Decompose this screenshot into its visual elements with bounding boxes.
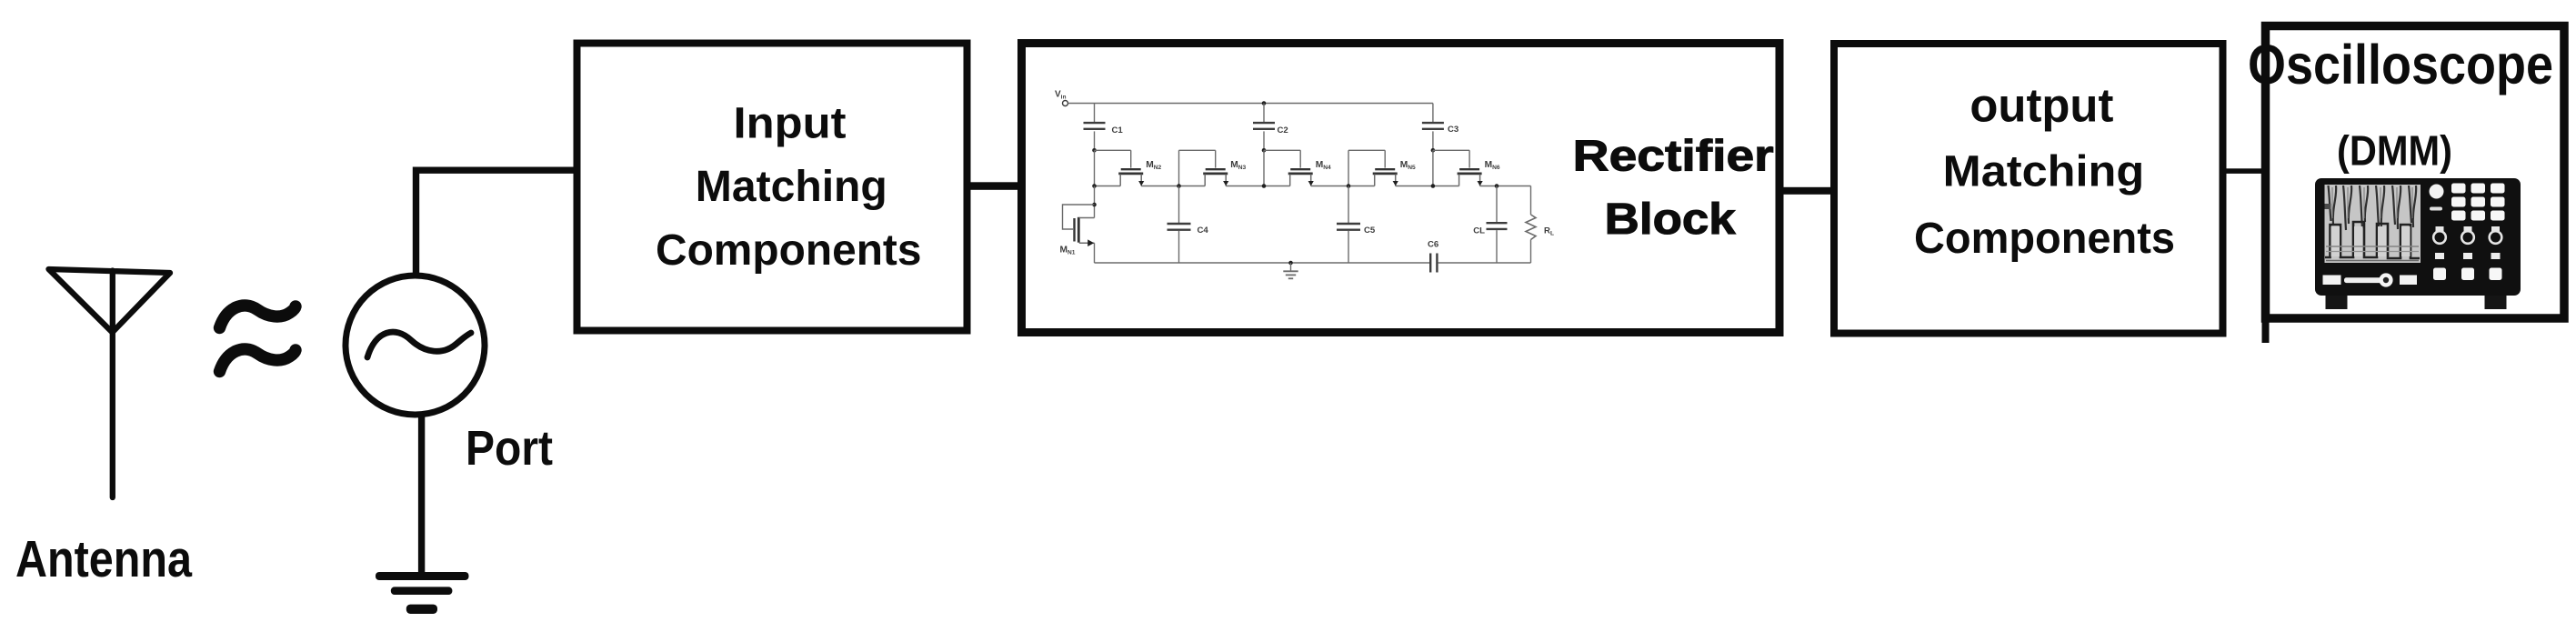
ground symbol (port) <box>376 572 469 614</box>
wire port-to-input-matching <box>416 170 577 273</box>
svg-text:Block: Block <box>1605 195 1737 244</box>
antenna symbol <box>49 269 171 497</box>
wire source-to-ground <box>418 415 425 574</box>
wire node5 vertical <box>1432 150 1434 186</box>
svg-text:Matching: Matching <box>696 162 887 211</box>
wire top rail from Vin to C3 <box>1068 103 1433 105</box>
svg-text:Components: Components <box>1914 214 2175 263</box>
capacitor C5 <box>1337 186 1376 264</box>
svg-text:C3: C3 <box>1448 125 1458 135</box>
capacitor C2 <box>1253 101 1288 150</box>
wire node1 vertical <box>1094 150 1096 186</box>
svg-text:(DMM): (DMM) <box>2337 127 2452 175</box>
block: Rectifier Block <box>1022 44 1780 333</box>
svg-text:Rectifier: Rectifier <box>1573 132 1774 181</box>
block: Oscilloscope <box>2266 26 2565 319</box>
capacitor C6 <box>1428 240 1438 273</box>
svg-text:Antenna: Antenna <box>15 530 193 588</box>
wire gate hookup M4 <box>1262 148 1301 153</box>
svg-text:output: output <box>1970 79 2113 132</box>
ground (schematic) <box>1283 261 1298 279</box>
capacitor C4 <box>1168 186 1209 264</box>
wire gate hookup M2 <box>1092 148 1131 153</box>
wire rectifier-to-output <box>1779 187 1835 195</box>
capacitor C1 <box>1084 104 1124 151</box>
stray stroke below box corner <box>2262 318 2270 343</box>
wire gate hookup M5 <box>1348 150 1385 186</box>
resistor RL <box>1526 186 1554 264</box>
svg-text:C1: C1 <box>1112 125 1124 135</box>
capacitor CL <box>1473 186 1507 264</box>
svg-text:Port: Port <box>466 422 553 476</box>
svg-text:Matching: Matching <box>1943 147 2145 196</box>
block: output Matching Components <box>1834 44 2223 334</box>
wire input-to-rectifier <box>967 182 1022 190</box>
AC source (port) circle <box>346 276 485 415</box>
svg-text:C5: C5 <box>1364 226 1376 236</box>
transistor MN4 <box>1288 150 1331 186</box>
svg-text:C2: C2 <box>1278 125 1288 135</box>
svg-text:Components: Components <box>656 226 922 275</box>
transistor MN3 <box>1203 150 1246 186</box>
approx-equal squiggle <box>220 306 296 372</box>
transistor MN1 (diode connected) <box>1060 186 1097 264</box>
transistor MN5 <box>1373 150 1416 186</box>
oscilloscope instrument drawing <box>2315 178 2521 309</box>
wire gate hookup M6 <box>1431 148 1470 153</box>
transistor MN2 <box>1118 150 1161 186</box>
transistor MN6 <box>1458 150 1500 186</box>
svg-text:C4: C4 <box>1198 226 1209 236</box>
svg-text:CL: CL <box>1473 226 1485 236</box>
wire node3 vertical <box>1263 150 1265 186</box>
wire output-to-oscilloscope <box>2222 168 2265 174</box>
capacitor C3 <box>1422 104 1458 151</box>
wire gate hookup M3 <box>1179 150 1216 186</box>
block: Input Matching Components <box>577 44 967 331</box>
svg-text:C6: C6 <box>1428 240 1438 250</box>
node Vin terminal <box>1055 90 1068 106</box>
sine wave inside source <box>367 332 471 357</box>
svg-text:Oscilloscope: Oscilloscope <box>2248 34 2553 95</box>
svg-text:Input: Input <box>734 99 847 148</box>
wire bottom rail <box>1095 262 1531 264</box>
wire chain segments <box>1092 184 1530 188</box>
